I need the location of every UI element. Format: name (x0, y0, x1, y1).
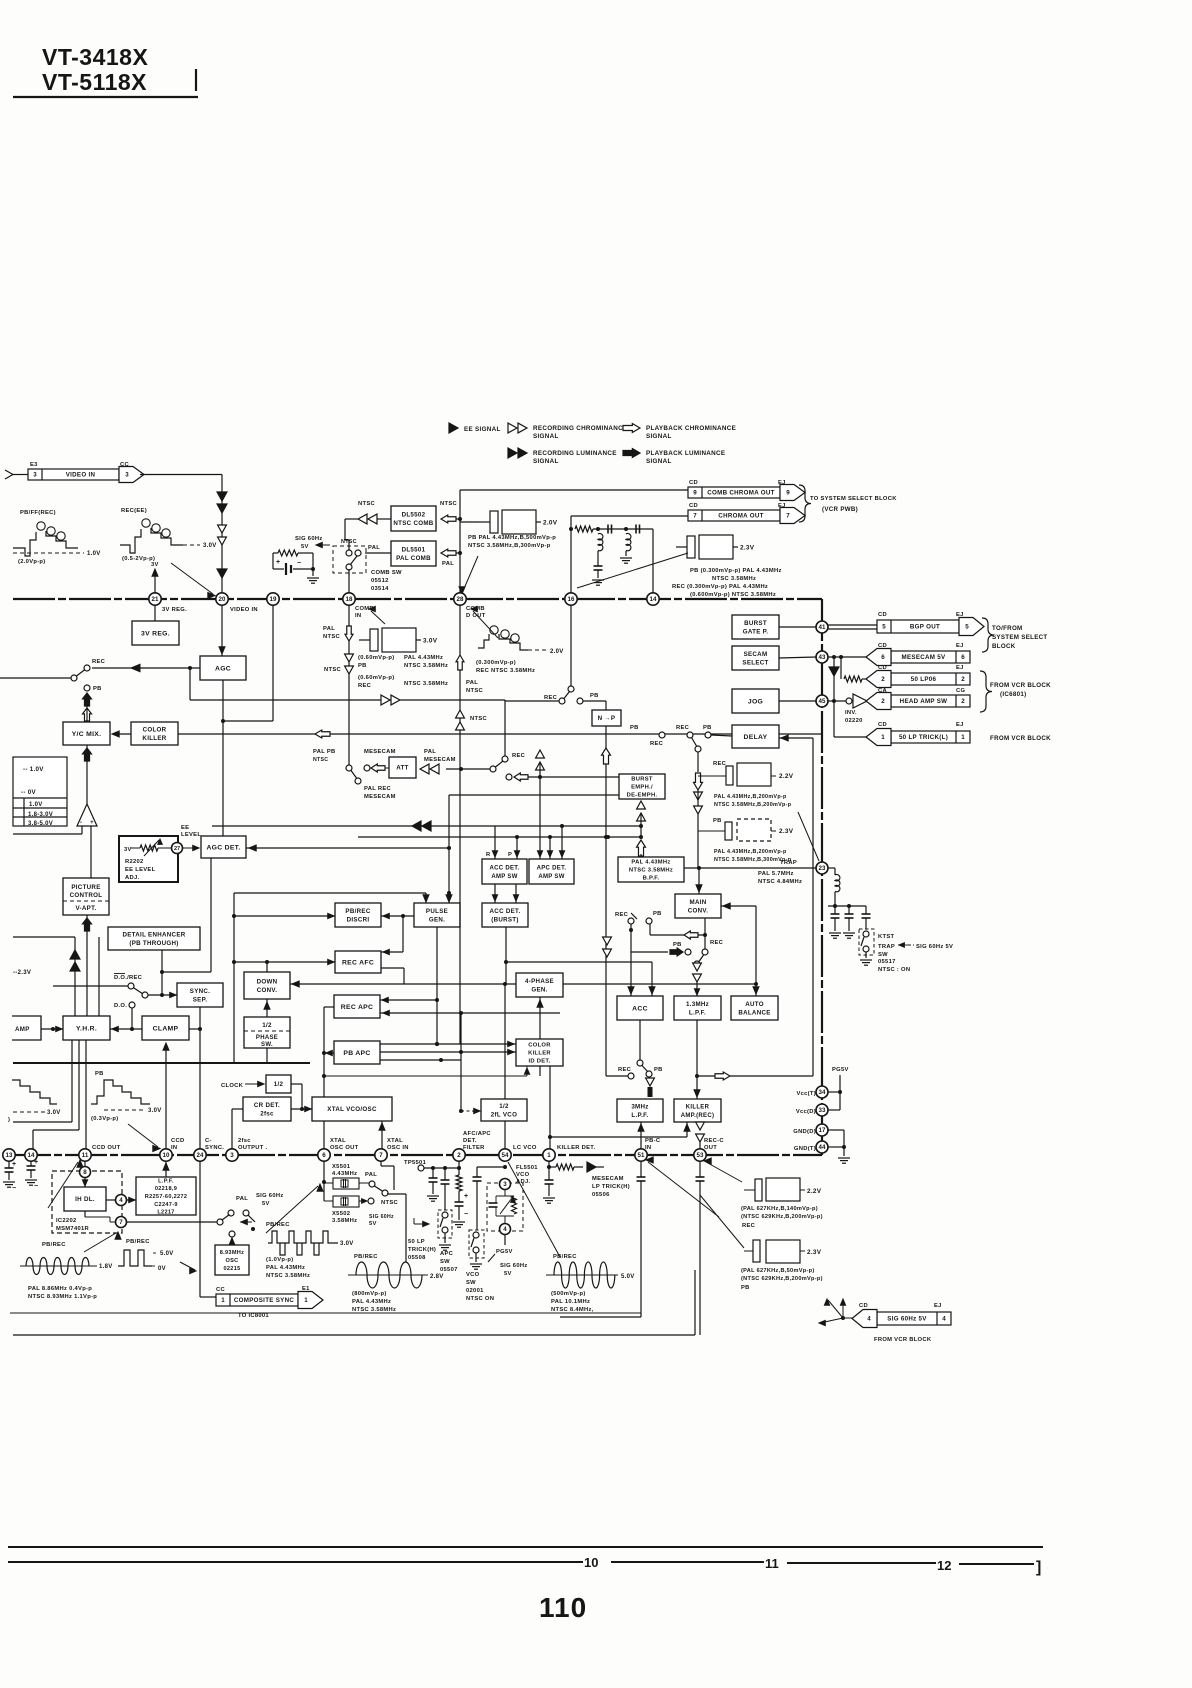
svg-text:03514: 03514 (371, 586, 389, 592)
wire detail enhancer bottom to sync sep (161, 950, 163, 995)
dashed wire into 1/2 2fL vco (461, 1110, 481, 1112)
wire discri to rec afc (402, 916, 404, 952)
svg-text:C2247-9: C2247-9 (154, 1202, 178, 1208)
block BURST EMPH DE-EMPH (619, 774, 665, 799)
svg-text:PAL REC: PAL REC (364, 786, 392, 792)
svg-text:05507: 05507 (440, 1267, 458, 1273)
svg-text:PB: PB (653, 911, 662, 917)
svg-text:SW: SW (440, 1259, 450, 1265)
svg-text:CC: CC (216, 1287, 225, 1293)
wire comb chroma out line (460, 489, 688, 491)
svg-text:L.P.F.: L.P.F. (689, 1009, 706, 1016)
svg-text:PB APC: PB APC (343, 1050, 370, 1057)
svg-text:7: 7 (693, 513, 697, 520)
svg-text:TO SYSTEM SELECT BLOCK: TO SYSTEM SELECT BLOCK (810, 496, 897, 502)
svg-text:OSC: OSC (225, 1258, 238, 1264)
capacitor 2 at TP5501 (444, 1168, 446, 1180)
svg-text:PB/REC: PB/REC (553, 1254, 577, 1260)
svg-text:VT-5118X: VT-5118X (42, 69, 147, 95)
wire opamp plus input from picture control (90, 826, 92, 878)
switch D.O./REC (53, 985, 128, 987)
svg-text:NTSC 3.58MHz,B,200mVp-p: NTSC 3.58MHz,B,200mVp-p (714, 802, 792, 808)
svg-text:4: 4 (942, 1316, 946, 1323)
svg-text:21: 21 (152, 596, 159, 603)
wire bpf to pin 23 trap line (684, 867, 816, 869)
wire delay feedback from killer amp (779, 737, 813, 739)
svg-text:V-APT.: V-APT. (75, 905, 96, 912)
wire AGC DET down to sync line (210, 858, 212, 972)
wire crystal switch down (387, 1193, 406, 1195)
svg-text:R: R (486, 852, 491, 858)
svg-text:3MHz: 3MHz (631, 1104, 648, 1111)
svg-text:PAL: PAL (424, 749, 436, 755)
svg-text:2.2V: 2.2V (807, 1188, 822, 1195)
svg-text:REC NTSC 3.58MHz: REC NTSC 3.58MHz (476, 668, 535, 674)
capacitor at rec-c out (699, 1161, 701, 1177)
svg-text:2: 2 (881, 676, 885, 683)
svg-text:PB/REC: PB/REC (42, 1242, 66, 1248)
svg-text:02215: 02215 (223, 1266, 240, 1272)
footer ruler line segment 3 (787, 1562, 936, 1564)
wire killer amp bottom feed (550, 1136, 687, 1138)
wire comb switch to pin 18 (348, 569, 350, 599)
bandpass component 2.0V (479, 521, 490, 523)
wire pin 28 down chain (459, 605, 461, 1044)
svg-text:02220: 02220 (845, 718, 863, 724)
svg-text:ID DET.: ID DET. (528, 1059, 550, 1065)
open block arrow up on N-P chain (602, 748, 611, 764)
wire filter chain to trap line (697, 840, 699, 868)
ground at comb switch feed (312, 553, 314, 576)
svg-text:CLAMP: CLAMP (153, 1025, 179, 1032)
recording chrominance triangles on rec path (381, 695, 390, 705)
svg-text:(PAL 627KHz,B,50mVp-p): (PAL 627KHz,B,50mVp-p) (741, 1268, 815, 1274)
signal triangles below burst emph (637, 801, 646, 809)
wire pin 24 to composite sync (199, 1161, 201, 1297)
brace to/from system select (982, 618, 994, 652)
trap switch 05517 dashed box (865, 918, 867, 929)
svg-text:REC: REC (710, 940, 724, 946)
wire rec afc output (381, 967, 404, 969)
svg-text:PB/REC: PB/REC (126, 1239, 150, 1245)
svg-text:23: 23 (819, 865, 826, 872)
waveform PB/FF(REC) 1.0V dashed level (13, 552, 84, 554)
signal triangles on filter chain (694, 792, 703, 800)
svg-text:GATE P.: GATE P. (743, 628, 769, 635)
svg-text:(1.0Vp-p): (1.0Vp-p) (266, 1257, 294, 1263)
svg-text:+: + (34, 1159, 38, 1166)
pin 54 bottom bus (499, 1149, 511, 1161)
svg-text:(PAL 627KHz,B,140mVp-p): (PAL 627KHz,B,140mVp-p) (741, 1206, 818, 1212)
svg-text:APC DET.: APC DET. (537, 866, 567, 872)
junction arrows at sig 60hz feed (828, 1300, 843, 1318)
wire pin 43 to MESECAM connector (828, 656, 869, 658)
svg-text:BALANCE: BALANCE (738, 1009, 770, 1016)
svg-text:NTSC 3.58MHz: NTSC 3.58MHz (352, 1307, 396, 1313)
connector 1 50 LP TRICK(L) (891, 731, 970, 743)
arrow into pal switch (240, 1221, 252, 1223)
block arrow into ATT (371, 764, 385, 772)
svg-text:(0.600mVp-p) NTSC 3.58MHz: (0.600mVp-p) NTSC 3.58MHz (690, 592, 776, 598)
svg-text:34: 34 (819, 1089, 826, 1096)
svg-text:PAL: PAL (442, 561, 454, 567)
comb switch contacts (346, 550, 352, 556)
switch rec pb mid (628, 918, 634, 924)
wire vco feed vertical (460, 1013, 462, 1111)
coil below pin 23 (828, 867, 835, 869)
svg-text:3: 3 (230, 1152, 234, 1159)
bandpass 627kHz REC filter (744, 1189, 755, 1191)
svg-text:FILTER: FILTER (463, 1145, 485, 1151)
battery symbol (272, 553, 274, 569)
wire main conv bottom (704, 918, 706, 949)
svg-text:PAL: PAL (323, 626, 335, 632)
block Y/C MIX (63, 722, 110, 745)
svg-text:Y.H.R.: Y.H.R. (76, 1025, 97, 1032)
pin 17 GNDD (816, 1124, 828, 1136)
svg-text:TRAP: TRAP (780, 860, 797, 866)
svg-text:CR DET.: CR DET. (254, 1102, 280, 1109)
svg-text:COLOR: COLOR (143, 727, 167, 734)
resistor at killer det (549, 1166, 556, 1168)
block SECAM SELECT (732, 646, 779, 670)
open down arrow on filter chain (694, 773, 703, 790)
wire pin7 switch to osc (127, 1221, 218, 1223)
regulator 3V REG (132, 621, 179, 645)
svg-text:INV.: INV. (845, 710, 857, 716)
wire pb-c in bottom (560, 1316, 641, 1318)
svg-text:EJ: EJ (956, 665, 964, 671)
svg-text:IN: IN (645, 1145, 651, 1151)
pointer arrow to c-sync line (180, 1262, 195, 1270)
connector 1 COMPOSITE SYNC (216, 1294, 298, 1306)
svg-text:VCO: VCO (466, 1272, 480, 1278)
wire varactor to PG5V (504, 1235, 506, 1245)
bandpass 2.2V rec (698, 775, 715, 777)
svg-text:PAL 8.86MHz 0.4Vp-p: PAL 8.86MHz 0.4Vp-p (28, 1286, 92, 1292)
svg-text:5V: 5V (369, 1221, 377, 1227)
pin 7 of IC2202 (84, 1211, 86, 1217)
svg-text:SEP.: SEP. (193, 996, 208, 1003)
block DELAY (732, 725, 779, 748)
svg-text:RECORDING LUMINANCE: RECORDING LUMINANCE (533, 450, 617, 457)
svg-text:SIG 60Hz: SIG 60Hz (369, 1214, 394, 1220)
svg-text:2: 2 (881, 698, 885, 705)
svg-text:1: 1 (304, 1297, 308, 1304)
svg-text:VIDEO IN: VIDEO IN (230, 607, 258, 613)
svg-text:7: 7 (379, 1152, 383, 1159)
svg-text:PAL 4.43MHz,B,200mVp-p: PAL 4.43MHz,B,200mVp-p (714, 794, 787, 800)
wire 3mhz lpf to pin 51 (640, 1122, 642, 1149)
block MAIN CONV (675, 894, 721, 918)
svg-text:AGC DET.: AGC DET. (206, 844, 240, 851)
svg-text:7: 7 (786, 513, 790, 520)
svg-text:NTSC ON: NTSC ON (466, 1296, 494, 1302)
trap capacitor network (828, 905, 866, 907)
svg-text:2: 2 (457, 1152, 461, 1159)
block arrow DL5501 output (441, 549, 456, 557)
svg-text:OSC IN: OSC IN (387, 1145, 409, 1151)
svg-text:SYSTEM SELECT: SYSTEM SELECT (992, 634, 1047, 641)
wire pin 18 down chain (348, 605, 350, 765)
block PICTURE CONTROL / V-APT (63, 878, 109, 915)
svg-text:-- 0V: -- 0V (21, 789, 36, 796)
legend playback chrominance symbol (623, 424, 640, 433)
svg-text:EMPH./: EMPH./ (631, 785, 653, 791)
svg-text:AMP.(REC): AMP.(REC) (681, 1113, 715, 1119)
svg-text:SIGNAL: SIGNAL (646, 458, 672, 465)
svg-text:DL5502: DL5502 (402, 512, 426, 519)
wire rec contact down (630, 924, 632, 996)
svg-text:REC: REC (544, 695, 558, 701)
svg-text:33: 33 (819, 1107, 826, 1114)
wire killer amp to pin 53 (696, 1122, 705, 1130)
svg-text:DETAIL ENHANCER: DETAIL ENHANCER (122, 932, 185, 939)
wire PB contact to Y/C MIX (86, 706, 88, 722)
wire pulse gen down (436, 927, 438, 1044)
capacitor at pb-c in (640, 1161, 642, 1177)
pin 3 bottom bus (226, 1149, 238, 1161)
block ACC DET (BURST) (482, 903, 528, 927)
contact NTSC crystal (368, 1198, 374, 1204)
wire xtal osc out (323, 1121, 325, 1149)
svg-text:PB/FF(REC): PB/FF(REC) (20, 510, 56, 516)
wire pin43 trick feed (834, 736, 869, 738)
svg-text:AFC/APC: AFC/APC (463, 1131, 491, 1137)
svg-text:CD: CD (878, 722, 887, 728)
pin 13 bottom bus (3, 1149, 15, 1161)
svg-text:MESECAM: MESECAM (424, 757, 456, 763)
wire pb arrow line to burst emph (506, 774, 512, 780)
svg-text:3.0V: 3.0V (340, 1241, 354, 1247)
capacitor at vco sw (473, 1176, 482, 1178)
svg-text:45: 45 (819, 698, 826, 705)
svg-text:C-: C- (205, 1138, 212, 1144)
pin 24 bottom bus (194, 1149, 206, 1161)
waveform staircase left below bus (12, 1080, 57, 1104)
IC right bus line (821, 599, 823, 1155)
wire pin 6 to crystals (323, 1161, 325, 1201)
pointer diagonal to pin 53 (706, 1162, 742, 1182)
svg-text:2.8V: 2.8V (430, 1274, 444, 1280)
svg-text:PAL 4.43MHz: PAL 4.43MHz (404, 655, 443, 661)
wire line 795 to burst emph (449, 794, 619, 796)
pin 3 varactor (500, 1179, 511, 1190)
svg-text:PB: PB (703, 725, 712, 731)
wire killer line into delay (711, 735, 732, 736)
svg-text:OSC OUT: OSC OUT (330, 1145, 359, 1151)
wire cr det to xtal vco (291, 1108, 312, 1110)
double wire to BGP OUT (828, 624, 877, 626)
pin 34 VccT (816, 1086, 828, 1098)
wire DL5502 output to comb-out bus (456, 518, 460, 520)
wire comb switch to DL5501 (365, 552, 391, 554)
svg-text:REC(EE): REC(EE) (121, 508, 147, 514)
svg-text:B.P.F.: B.P.F. (643, 876, 660, 882)
svg-text:EJ: EJ (956, 722, 964, 728)
pointer arrow at vco sw (488, 1254, 495, 1262)
svg-text:2fsc: 2fsc (238, 1138, 251, 1144)
svg-text:9: 9 (693, 490, 697, 497)
wire into detail enhancer area (13, 936, 75, 938)
block AUTO BALANCE (731, 996, 778, 1020)
svg-text:AUTO: AUTO (745, 1001, 764, 1008)
svg-text:KILLER: KILLER (686, 1105, 710, 1111)
svg-text:02218,9: 02218,9 (155, 1186, 177, 1192)
block PB APC (334, 1041, 380, 1064)
block APC DET AMP SW (529, 859, 574, 884)
svg-text:CCD: CCD (171, 1138, 184, 1144)
svg-text:ACC DET.: ACC DET. (490, 908, 521, 915)
legend recording luminance symbol (508, 448, 517, 458)
svg-text:CHROMA OUT: CHROMA OUT (718, 513, 763, 520)
comb switch 05512 dashed box (333, 546, 366, 573)
svg-text:−: − (297, 560, 301, 567)
svg-text:PB: PB (358, 663, 367, 669)
svg-text:EE: EE (181, 825, 189, 831)
svg-text:(2.0Vp-p): (2.0Vp-p) (18, 559, 46, 565)
switch on killer line (659, 732, 665, 738)
pot R2202 EE LEVEL ADJ box (119, 836, 178, 882)
wire amp sw to acc det burst (494, 884, 496, 903)
svg-text:SIGNAL: SIGNAL (533, 458, 559, 465)
wire AMP to YHR (41, 1028, 63, 1030)
svg-text:PAL 5.7MHz: PAL 5.7MHz (758, 871, 794, 877)
pin 53 bottom bus (694, 1149, 706, 1161)
switch APC SW 05507 dashed box (438, 1210, 452, 1238)
svg-text:NTSC 3.58MHz: NTSC 3.58MHz (629, 868, 673, 874)
wire detail enhancer left feed (98, 937, 100, 1016)
footer ruler line segment 2 (611, 1561, 764, 1563)
svg-text:PB: PB (654, 1067, 663, 1073)
schematic border right vertical (694, 1270, 696, 1335)
svg-text:1/2: 1/2 (262, 1022, 272, 1029)
svg-text:5.0V: 5.0V (621, 1274, 635, 1280)
varactor dashed box (487, 1183, 523, 1231)
svg-text:): ) (8, 1117, 10, 1123)
svg-text:PHASE: PHASE (256, 1035, 278, 1041)
svg-text:-: - (80, 820, 82, 826)
pointer arrow at COMB IN (371, 611, 385, 624)
svg-text:SIG 60Hz: SIG 60Hz (256, 1193, 284, 1199)
svg-text:REC: REC (676, 725, 690, 731)
svg-text:AMP SW: AMP SW (538, 874, 564, 880)
wire xtal osc in (381, 1121, 383, 1149)
svg-text:TRICK(H): TRICK(H) (408, 1247, 436, 1253)
svg-text:REC: REC (742, 1223, 756, 1229)
block CLAMP (142, 1016, 189, 1040)
svg-text:EJ: EJ (956, 643, 964, 649)
block JOG (732, 689, 779, 713)
pointer arrow to pin 28 (463, 556, 478, 591)
pointer diagonal to pin 51 (648, 1162, 719, 1217)
IC bottom bus line (9, 1154, 822, 1156)
svg-text:SW: SW (466, 1280, 476, 1286)
svg-text:PLAYBACK LUMINANCE: PLAYBACK LUMINANCE (646, 450, 725, 457)
svg-text:4: 4 (867, 1316, 871, 1323)
svg-text:14: 14 (650, 596, 657, 603)
wire pin 20 to AGC (221, 605, 223, 656)
svg-text:BURST: BURST (631, 777, 653, 783)
svg-text:-- 1.0V: -- 1.0V (23, 766, 44, 773)
svg-text:IN: IN (355, 613, 361, 619)
block 3MHz LPF killer (617, 1099, 663, 1122)
pin 51 bottom bus (635, 1149, 647, 1161)
wire pin 54 varactor (503, 1165, 507, 1169)
svg-text:NTSC: NTSC (341, 539, 357, 545)
brace to system select block (799, 485, 811, 522)
wire rec chroma path (189, 668, 191, 700)
svg-text:AGC: AGC (215, 665, 231, 672)
svg-text:3.0V: 3.0V (203, 543, 217, 549)
svg-text:PAL: PAL (236, 1196, 248, 1202)
wire 4-phase gen bottom feed (539, 997, 541, 1076)
svg-text:3.0V: 3.0V (47, 1110, 61, 1116)
block ACC DET AMP SW (482, 859, 527, 884)
svg-text:REC (0.300mVp-p) PAL 4.43M: REC (0.300mVp-p) PAL 4.43MHz (672, 584, 768, 590)
svg-text:PG5V: PG5V (496, 1249, 513, 1255)
svg-text:REC: REC (512, 753, 526, 759)
block KILLER AMP REC (674, 1099, 721, 1122)
pointer arrow at COMB D OUT (473, 611, 498, 638)
svg-text:(0.300mVp-p): (0.300mVp-p) (476, 660, 516, 666)
svg-text:2.3V: 2.3V (779, 828, 794, 835)
svg-text:TO IC8001: TO IC8001 (238, 1313, 269, 1319)
svg-text:SW.: SW. (261, 1042, 273, 1048)
svg-text:R2202: R2202 (125, 859, 144, 865)
block XTAL VCO/OSC (312, 1097, 392, 1121)
block PB/REC DISCRI (335, 903, 381, 927)
block COLOR KILLER (131, 722, 178, 745)
wire pin 27 to AGC DET (183, 847, 198, 849)
svg-text:PB: PB (93, 686, 102, 692)
svg-text:SECAM: SECAM (744, 651, 768, 658)
svg-text:PAL COMB: PAL COMB (396, 555, 431, 562)
wire color killer feed down (233, 893, 235, 1063)
svg-text:PAL 4.43MHz,B,200mVp-p: PAL 4.43MHz,B,200mVp-p (714, 849, 787, 855)
svg-text:ACC DET.: ACC DET. (489, 866, 519, 872)
wire pin8 to IH DL (84, 1178, 86, 1187)
title underline (13, 96, 198, 98)
waveform sine right dense (554, 1262, 615, 1288)
resistor at pin 2 (458, 1161, 460, 1175)
svg-text:CONTROL: CONTROL (70, 892, 103, 899)
wire pin 21 up arrow (154, 570, 156, 593)
connector 4 SIG 60Hz 5V (877, 1312, 951, 1325)
svg-text:2.2V: 2.2V (779, 773, 794, 780)
signal triangles down mid (603, 937, 612, 945)
svg-text:NTSC: NTSC (313, 757, 328, 763)
block BURST GATE P (732, 615, 779, 639)
wire att switch (385, 767, 389, 769)
wire picture control to YHR (86, 915, 88, 1016)
wire chroma out line (571, 515, 688, 517)
svg-text:17: 17 (819, 1127, 826, 1134)
playback chroma triangles at ATT right (536, 750, 545, 758)
svg-text:FROM VCR BLOCK: FROM VCR BLOCK (874, 1337, 932, 1343)
wire jog to pin 45 (779, 700, 816, 702)
svg-text:+: + (464, 1193, 468, 1200)
svg-text:REC: REC (615, 912, 629, 918)
svg-text:COLOR: COLOR (528, 1043, 551, 1049)
svg-text:PB: PB (630, 725, 639, 731)
svg-text:MESECAM: MESECAM (592, 1176, 624, 1182)
svg-text:−: − (34, 1183, 38, 1190)
svg-text:]: ] (1036, 1559, 1042, 1576)
svg-text:4.43MHz: 4.43MHz (332, 1171, 357, 1177)
svg-text:NTSC 3.58MHz: NTSC 3.58MHz (266, 1273, 310, 1279)
footer ruler line segment 4 (959, 1563, 1034, 1565)
